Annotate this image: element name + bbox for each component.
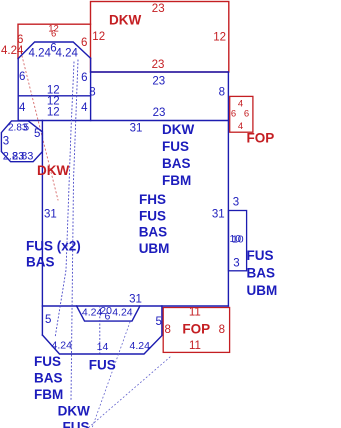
svg-text:5: 5 — [156, 316, 162, 328]
wire bottom horizontal of big rect — [42, 305, 228, 307]
svg-text:DKW: DKW — [58, 404, 90, 419]
svg-text:11: 11 — [189, 307, 201, 319]
svg-text:31: 31 — [212, 209, 225, 221]
svg-text:5: 5 — [45, 314, 51, 326]
small right box — [229, 211, 247, 271]
svg-text:31: 31 — [129, 294, 142, 306]
panel DKW top (red outline) — [91, 2, 229, 73]
svg-text:3: 3 — [233, 257, 239, 269]
svg-text:FUS: FUS — [89, 358, 116, 373]
dotted leader C — [99, 306, 101, 353]
svg-text:3: 3 — [233, 197, 239, 209]
svg-text:12: 12 — [213, 31, 226, 43]
svg-text:DKW: DKW — [109, 13, 141, 28]
dotted leader A — [55, 62, 74, 338]
svg-text:31: 31 — [130, 123, 143, 135]
svg-text:4.24: 4.24 — [56, 48, 79, 60]
svg-text:6: 6 — [231, 109, 236, 120]
svg-text:FOP: FOP — [247, 131, 275, 146]
svg-text:23: 23 — [152, 76, 165, 88]
svg-text:4: 4 — [81, 102, 88, 114]
svg-text:4.24: 4.24 — [112, 307, 133, 319]
svg-text:11: 11 — [189, 340, 201, 352]
dotted leader D2 — [88, 357, 170, 428]
wire left column right edge — [90, 58, 92, 120]
svg-text:FBM: FBM — [34, 387, 63, 402]
svg-text:12: 12 — [92, 31, 105, 43]
wire row rect top — [91, 71, 229, 73]
svg-text:14: 14 — [97, 341, 109, 353]
svg-text:BAS: BAS — [247, 266, 276, 281]
svg-text:8: 8 — [219, 324, 225, 336]
svg-text:UBM: UBM — [247, 283, 278, 298]
svg-text:BAS: BAS — [162, 156, 191, 171]
svg-text:8: 8 — [165, 324, 171, 336]
svg-text:BAS: BAS — [26, 255, 55, 270]
svg-text:DKW: DKW — [37, 163, 69, 178]
svg-text:4: 4 — [238, 99, 243, 110]
svg-text:FUS (x2): FUS (x2) — [26, 239, 81, 254]
panel FOP right (red box) — [230, 96, 253, 132]
svg-text:BAS: BAS — [139, 225, 168, 240]
svg-text:23: 23 — [152, 59, 165, 71]
svg-text:2.83: 2.83 — [12, 150, 33, 162]
panel FOP bottom (red box) — [163, 308, 229, 353]
svg-text:12: 12 — [47, 107, 60, 119]
svg-text:FBM: FBM — [162, 173, 191, 188]
svg-text:UBM: UBM — [139, 241, 170, 256]
svg-text:6: 6 — [244, 109, 249, 120]
svg-text:FUS: FUS — [34, 354, 61, 369]
bottom shape chamfered outline — [42, 306, 161, 354]
octagon — [1, 121, 42, 162]
svg-text:8: 8 — [219, 87, 225, 99]
svg-text:4: 4 — [19, 102, 26, 114]
wire right vertical edge — [227, 72, 229, 306]
red dashed leader line — [21, 52, 58, 200]
svg-text:6: 6 — [51, 28, 56, 39]
svg-text:4.24: 4.24 — [1, 45, 24, 57]
svg-text:8: 8 — [89, 87, 95, 99]
svg-text:6: 6 — [19, 71, 25, 83]
svg-text:FUS: FUS — [162, 139, 189, 154]
svg-text:23: 23 — [153, 107, 166, 119]
svg-text:6: 6 — [105, 311, 111, 323]
wire main horizontal top of big rect — [18, 120, 228, 122]
svg-text:FUS: FUS — [63, 420, 90, 428]
svg-text:12: 12 — [47, 85, 60, 97]
dotted leader B — [71, 60, 78, 400]
svg-text:5: 5 — [34, 128, 40, 140]
svg-text:FOP: FOP — [182, 322, 210, 337]
svg-text:6: 6 — [81, 72, 87, 84]
wire big rect left edge — [41, 121, 43, 336]
svg-text:4.24: 4.24 — [29, 48, 52, 60]
dotted leader D1 — [92, 322, 130, 428]
svg-text:3: 3 — [3, 136, 9, 148]
svg-text:4.24: 4.24 — [130, 340, 151, 352]
wire left column outer edge — [17, 59, 19, 121]
svg-text:31: 31 — [44, 209, 57, 221]
svg-text:6: 6 — [81, 37, 87, 49]
hexagon top chamfered edge — [18, 42, 90, 59]
svg-text:FUS: FUS — [139, 209, 166, 224]
svg-text:10: 10 — [232, 233, 244, 245]
svg-text:FHS: FHS — [139, 192, 166, 207]
svg-text:FUS: FUS — [247, 248, 274, 263]
panel top-left red box — [18, 24, 91, 58]
svg-text:4: 4 — [238, 121, 243, 132]
svg-text:5: 5 — [24, 123, 30, 134]
svg-text:23: 23 — [152, 3, 165, 15]
notch trapezoid — [77, 306, 140, 321]
svg-text:DKW: DKW — [162, 122, 194, 137]
wire left column divider — [18, 95, 90, 97]
svg-text:4.24: 4.24 — [52, 340, 73, 352]
svg-text:BAS: BAS — [34, 371, 63, 386]
